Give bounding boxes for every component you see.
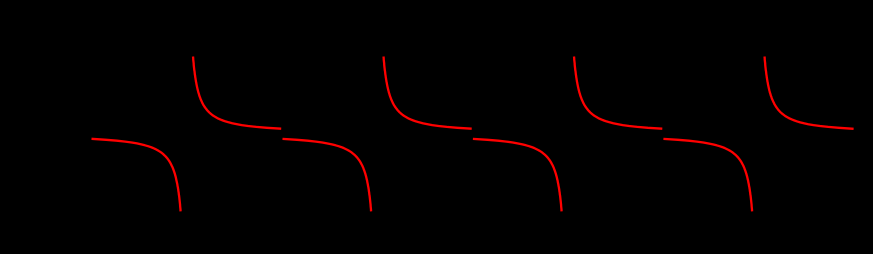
curve piece: branch 2 lower half bbox=[473, 139, 562, 212]
curve piece: branch 1 lower half bbox=[283, 139, 372, 212]
curve piece: branch 0 lower half (left partial) bbox=[92, 139, 181, 212]
curve piece: branch 3 upper half bbox=[574, 57, 662, 129]
curve piece: branch 2 upper half bbox=[384, 57, 472, 129]
curve piece: branch 1 upper half bbox=[193, 57, 281, 129]
curve piece: branch 4 upper half bbox=[765, 57, 854, 129]
curve piece: branch 3 lower half bbox=[663, 139, 752, 212]
